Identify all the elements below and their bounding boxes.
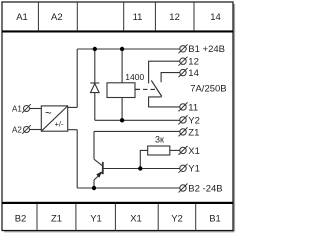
terminal circle Z1 — [179, 127, 188, 136]
svg-text:Y1: Y1 — [90, 214, 102, 225]
junction dot rail-coil — [120, 47, 124, 51]
wire contact 11 common lead — [149, 97, 180, 107]
top terminal-row divider (thick) — [2, 30, 233, 32]
terminal circle A1 — [22, 104, 31, 113]
terminal circle Y1 — [179, 164, 188, 173]
frame shadow — [4, 4, 234, 232]
svg-text:B1 +24B: B1 +24B — [188, 44, 225, 55]
svg-text:Y1: Y1 — [188, 164, 200, 175]
svg-text:Y2: Y2 — [188, 115, 200, 126]
wire resistor to X1 — [170, 149, 180, 151]
flyback diode VD1 — [90, 83, 99, 93]
wire coil feed vertical — [121, 49, 123, 83]
transistor emitter diagonal — [94, 172, 103, 180]
svg-text:14: 14 — [188, 68, 199, 79]
svg-text:B1: B1 — [209, 214, 221, 225]
svg-text:B2 -24B: B2 -24B — [188, 183, 222, 194]
svg-text:X1: X1 — [130, 214, 142, 225]
terminal circle A2 — [22, 125, 31, 134]
svg-text:A1: A1 — [16, 12, 28, 23]
relay mechanical dashed link — [136, 88, 158, 90]
svg-text:12: 12 — [188, 57, 199, 68]
svg-text:A1: A1 — [12, 104, 22, 113]
wire contact 12 lead — [149, 61, 180, 83]
relay contact arm — [151, 80, 162, 96]
wire left vertical rectifier plus to rail — [76, 49, 78, 107]
wire diode branch vertical — [94, 49, 96, 120]
wire rectifier plus stub — [68, 106, 78, 108]
terminal circle 14 — [179, 68, 188, 77]
svg-text:Y2: Y2 — [171, 214, 183, 225]
terminal circle B2 — [179, 184, 188, 193]
wire rectifier minus stub — [68, 129, 78, 131]
svg-text:Z1: Z1 — [51, 214, 62, 225]
junction dot rail-diode — [93, 47, 97, 51]
transistor emitter arrowhead — [96, 171, 102, 178]
bridge rectifier block — [41, 106, 67, 131]
junction dot coil-Y2 line — [120, 118, 124, 122]
wire contact 14 lead — [161, 73, 180, 83]
resistor 3k box — [148, 146, 170, 155]
wire Z1 line — [94, 130, 180, 132]
svg-text:12: 12 — [169, 12, 180, 23]
terminal circle B1 — [179, 44, 188, 53]
outer border frame — [2, 2, 233, 231]
svg-text:3к: 3к — [155, 134, 164, 144]
wire emitter vertical — [93, 180, 95, 188]
svg-text:A2: A2 — [12, 125, 22, 134]
svg-text:11: 11 — [188, 102, 198, 113]
terminal circle X1 — [179, 146, 188, 155]
bottom row box dividers — [37, 204, 196, 231]
wire A2 lead — [30, 129, 42, 131]
junction dot resistor-Y1 line — [138, 166, 142, 170]
wire top +24V rail — [77, 48, 180, 50]
transistor VT1 — [94, 159, 103, 180]
svg-text:Z1: Z1 — [188, 127, 199, 138]
transistor collector diagonal — [94, 159, 103, 166]
transistor base bar — [102, 162, 104, 174]
wire B2 -24V rail — [77, 187, 180, 189]
wire A1 lead — [30, 108, 42, 110]
wire Y2 line — [95, 119, 180, 121]
svg-text:X1: X1 — [188, 146, 200, 157]
svg-text:A2: A2 — [51, 12, 63, 23]
relay coil K1 box — [107, 83, 135, 98]
wire coil bottom drop — [121, 98, 123, 121]
terminal circle 12 — [179, 57, 188, 66]
bottom terminal-row divider (thick) — [2, 202, 233, 204]
wire transistor collector vertical — [93, 131, 95, 159]
svg-text:7A/250B: 7A/250B — [190, 84, 226, 95]
wire resistor left lead — [140, 150, 147, 168]
svg-text:+/-: +/- — [55, 119, 64, 128]
wire Y1 base line — [103, 168, 180, 170]
svg-text:11: 11 — [133, 12, 143, 23]
svg-text:14: 14 — [210, 12, 221, 23]
terminal circle Y2 — [179, 115, 188, 124]
junction dot emitter-B2 rail — [92, 186, 96, 190]
svg-text:B2: B2 — [15, 214, 27, 225]
svg-text:1400: 1400 — [125, 72, 144, 82]
svg-text:~: ~ — [45, 108, 52, 120]
top row box dividers — [38, 2, 194, 30]
relay coil stub to dashed link — [135, 88, 140, 90]
terminal circle 11 — [179, 102, 188, 111]
wire left vertical rectifier minus down — [76, 130, 78, 188]
